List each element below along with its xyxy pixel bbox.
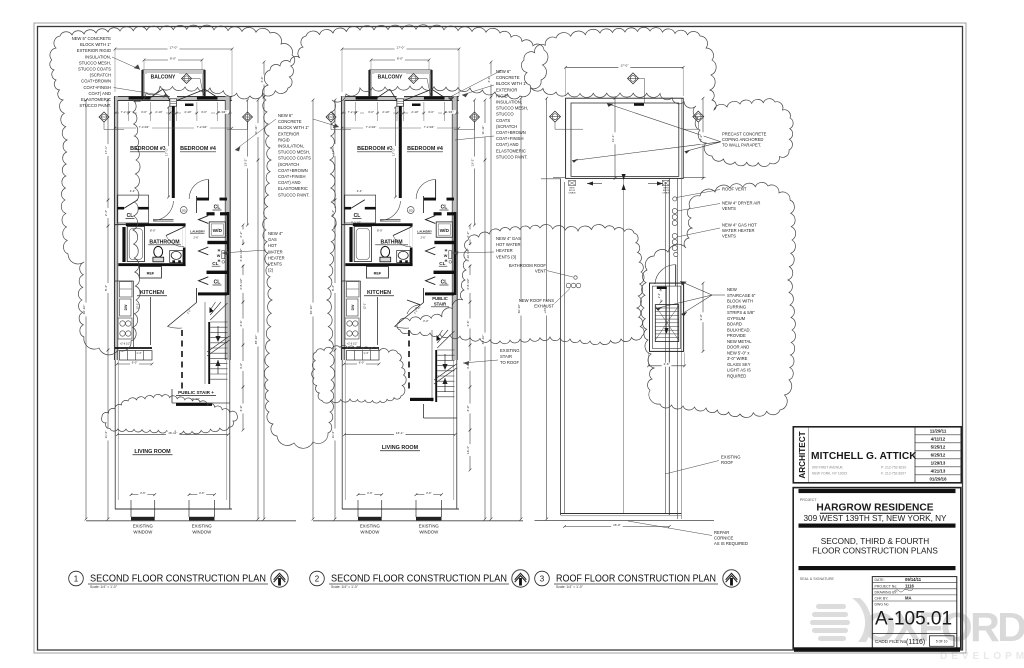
svg-text:2'-10": 2'-10" bbox=[184, 110, 191, 114]
svg-text:4/11/12: 4/11/12 bbox=[931, 437, 946, 442]
svg-text:8'-4": 8'-4" bbox=[331, 285, 335, 291]
closet right wall poche bbox=[454, 212, 457, 295]
svg-text:LAUNDRY: LAUNDRY bbox=[190, 230, 205, 234]
svg-text:11'-11": 11'-11" bbox=[481, 125, 485, 134]
svg-text:STUCCO MESH,: STUCCO MESH, bbox=[496, 106, 528, 111]
svg-text:BALCONY: BALCONY bbox=[151, 74, 176, 80]
stair direction arrows bbox=[217, 326, 219, 338]
svg-text:HOT: HOT bbox=[268, 243, 277, 248]
precast coping leaders bbox=[607, 104, 721, 142]
svg-text:1/29/13: 1/29/13 bbox=[931, 461, 946, 466]
svg-text:11'-2": 11'-2" bbox=[331, 431, 335, 439]
svg-text:W: W bbox=[444, 254, 448, 258]
sink pedestal bbox=[397, 251, 410, 263]
bottom black bar bbox=[794, 647, 960, 652]
svg-text:1'-4": 1'-4" bbox=[136, 351, 141, 355]
svg-text:8'-0": 8'-0" bbox=[377, 228, 383, 232]
svg-text:EXISTING: EXISTING bbox=[192, 524, 213, 529]
bedroom3 interior vdim bbox=[168, 107, 170, 197]
svg-text:KITCHEN: KITCHEN bbox=[140, 290, 164, 296]
svg-text:2'-2": 2'-2" bbox=[415, 306, 421, 310]
svg-text:17'-0": 17'-0" bbox=[170, 45, 178, 49]
svg-text:BATHROOM: BATHROOM bbox=[149, 239, 179, 245]
revision cloud mid-roof bbox=[397, 225, 644, 345]
plan title 2 bbox=[310, 571, 325, 586]
data table bbox=[872, 577, 957, 649]
svg-text:46'-10": 46'-10" bbox=[82, 305, 86, 315]
kitchen counter + DW bbox=[360, 281, 362, 348]
svg-text:CL: CL bbox=[214, 205, 221, 211]
svg-text:STUCCO COATS: STUCCO COATS bbox=[278, 156, 311, 161]
svg-text:5/25/12: 5/25/12 bbox=[931, 445, 946, 450]
svg-text:VENT: VENT bbox=[535, 269, 547, 274]
svg-text:(2): (2) bbox=[268, 268, 274, 273]
svg-text:NEW 4" GAS HOT: NEW 4" GAS HOT bbox=[722, 223, 757, 228]
svg-text:4'-4": 4'-4" bbox=[357, 189, 363, 193]
svg-text:4'-6": 4'-6" bbox=[260, 76, 264, 82]
bedroom3 interior vdim bbox=[395, 107, 397, 197]
svg-text:VENTS: VENTS bbox=[722, 206, 736, 211]
revision dates table bbox=[914, 427, 916, 483]
svg-text:11'-1": 11'-1" bbox=[611, 134, 615, 142]
svg-text:3'-9": 3'-9" bbox=[239, 405, 243, 411]
public stair treads bbox=[208, 322, 210, 384]
stucco leader to door bbox=[114, 88, 170, 97]
roof left vdim 46-10 bbox=[520, 98, 522, 519]
right vertical dims bbox=[247, 100, 249, 225]
svg-text:DRAIN: DRAIN bbox=[569, 191, 576, 194]
svg-text:KITCHEN: KITCHEN bbox=[367, 290, 391, 296]
svg-text:ELASTOMERIC: ELASTOMERIC bbox=[278, 186, 308, 191]
svg-text:VENTS: VENTS bbox=[722, 234, 736, 239]
revision cloud roof top bbox=[521, 27, 793, 166]
french doors bbox=[170, 96, 177, 101]
staircase note leaders bbox=[680, 281, 712, 295]
svg-text:DW: DW bbox=[124, 304, 128, 310]
door frame block bbox=[170, 99, 177, 106]
roof dim 16-0 bbox=[565, 526, 670, 528]
balcony label bbox=[147, 73, 179, 80]
bottom wall bbox=[342, 508, 459, 510]
hall dashed wall bbox=[408, 330, 410, 390]
svg-text:1116: 1116 bbox=[905, 583, 915, 588]
svg-text:7'-2 3/4": 7'-2 3/4" bbox=[424, 125, 435, 129]
bulkhead interior dims bbox=[660, 289, 662, 302]
svg-text:3'-0": 3'-0" bbox=[141, 110, 147, 114]
svg-text:TO WALL PARAPET.: TO WALL PARAPET. bbox=[722, 143, 761, 148]
svg-text:WATER: WATER bbox=[268, 249, 283, 254]
svg-text:EXHAUST: EXHAUST bbox=[534, 304, 554, 309]
svg-text:RIGID: RIGID bbox=[278, 137, 290, 142]
svg-text:16'-11": 16'-11" bbox=[168, 431, 177, 435]
public stair treads bbox=[435, 350, 437, 402]
stair bulkhead bbox=[650, 283, 684, 351]
svg-text:ROOF FLOOR CONSTRUCTION PLAN: ROOF FLOOR CONSTRUCTION PLAN bbox=[556, 574, 716, 585]
svg-text:COAT+BROWN: COAT+BROWN bbox=[278, 168, 308, 173]
interior revision cloud bbox=[101, 394, 237, 434]
french doors bbox=[397, 96, 404, 101]
svg-text:SECOND FLOOR CONSTRUCTION PLAN: SECOND FLOOR CONSTRUCTION PLAN bbox=[331, 574, 507, 585]
svg-text:BEDROOM #4: BEDROOM #4 bbox=[180, 146, 216, 152]
svg-text:COAT+FINISH: COAT+FINISH bbox=[84, 85, 112, 90]
closet right wall poche bbox=[227, 212, 230, 295]
svg-text:PRECAST CONCRETE: PRECAST CONCRETE bbox=[722, 132, 767, 137]
svg-text:BLOCK WITH 1": BLOCK WITH 1" bbox=[496, 81, 528, 86]
svg-text:1'-4": 1'-4" bbox=[363, 351, 368, 355]
svg-text:INSULATION,: INSULATION, bbox=[496, 100, 522, 105]
SECOND FLOOR PLAN 2 bbox=[309, 45, 523, 534]
svg-text:NEW 4" GAS: NEW 4" GAS bbox=[496, 236, 521, 241]
ground line bbox=[313, 520, 523, 522]
svg-text:+2'-6 1/2": +2'-6 1/2" bbox=[120, 343, 131, 346]
svg-text:6'-0": 6'-0" bbox=[132, 360, 138, 364]
svg-text:CHK BY:: CHK BY: bbox=[875, 597, 889, 601]
svg-text:REF: REF bbox=[147, 272, 155, 276]
balcony diamond tag bbox=[182, 74, 192, 84]
gas vent circles bbox=[672, 233, 677, 238]
svg-text:CL: CL bbox=[214, 280, 221, 286]
svg-text:11/29/11: 11/29/11 bbox=[930, 429, 947, 434]
svg-text:3'-6": 3'-6" bbox=[199, 491, 205, 495]
svg-text:CONCRETE: CONCRETE bbox=[278, 119, 302, 124]
svg-text:SEAL & SIGNATURE: SEAL & SIGNATURE bbox=[800, 577, 835, 581]
svg-text:BLOCK WITH 1": BLOCK WITH 1" bbox=[278, 125, 310, 130]
svg-text:EXTERIOR RIGID: EXTERIOR RIGID bbox=[77, 48, 111, 53]
svg-text:HEATER: HEATER bbox=[268, 255, 285, 260]
svg-text:H: H bbox=[218, 249, 221, 253]
svg-text:SECOND, THIRD & FOURTH: SECOND, THIRD & FOURTH bbox=[821, 537, 930, 546]
parapet bottom edge stubs bbox=[553, 176, 566, 178]
svg-text:WINDOW: WINDOW bbox=[419, 530, 439, 535]
balcony walls bbox=[370, 70, 432, 98]
svg-text:EXISTING: EXISTING bbox=[133, 524, 154, 529]
bathroom door leaf bbox=[410, 227, 412, 248]
roof centerline bbox=[623, 178, 625, 514]
black bar 1 bbox=[799, 489, 956, 493]
svg-text:W/D: W/D bbox=[213, 228, 223, 234]
dim 16-11 bbox=[345, 434, 456, 436]
hot water heater HWH bbox=[199, 247, 209, 255]
compass 1 bbox=[271, 570, 288, 587]
dim 8-0 balcony bbox=[144, 59, 202, 61]
right vertical dims bbox=[474, 100, 476, 225]
svg-text:COAT) AND: COAT) AND bbox=[496, 142, 519, 147]
svg-text:09/14/11: 09/14/11 bbox=[905, 577, 922, 582]
bathroom door leaf bbox=[183, 227, 185, 248]
svg-text:LAUNDRY: LAUNDRY bbox=[417, 230, 432, 234]
svg-text:RQUIRED: RQUIRED bbox=[727, 373, 746, 378]
svg-text:17'-1": 17'-1" bbox=[104, 146, 108, 154]
svg-text:7'-3 3/4": 7'-3 3/4" bbox=[139, 125, 150, 129]
svg-text:NEW: NEW bbox=[727, 287, 737, 292]
bathtub bbox=[354, 227, 371, 262]
svg-text:PUBLIC: PUBLIC bbox=[432, 296, 448, 301]
svg-text:CL: CL bbox=[439, 261, 445, 266]
svg-text:7'-3 3/4": 7'-3 3/4" bbox=[366, 125, 377, 129]
right exterior wall bbox=[452, 96, 457, 360]
svg-text:+2'-6 1/2": +2'-6 1/2" bbox=[347, 343, 358, 346]
svg-text:REPAIR: REPAIR bbox=[714, 530, 729, 535]
svg-text:Scale: 1/4" = 1'-0": Scale: 1/4" = 1'-0" bbox=[331, 585, 359, 589]
dishwasher bbox=[347, 299, 359, 316]
svg-text:LIVING ROOM: LIVING ROOM bbox=[382, 445, 419, 451]
svg-text:EXISTING: EXISTING bbox=[721, 455, 741, 460]
project title block frame bbox=[793, 488, 961, 649]
svg-text:3'-0": 3'-0" bbox=[368, 110, 374, 114]
svg-text:48'-10": 48'-10" bbox=[481, 335, 485, 345]
dishwasher bbox=[120, 299, 132, 316]
existing window bbox=[130, 500, 132, 517]
svg-text:ROOF VENT: ROOF VENT bbox=[722, 187, 747, 192]
svg-text:BALCONY: BALCONY bbox=[378, 74, 403, 80]
svg-text:(SCRATCH: (SCRATCH bbox=[278, 162, 299, 167]
hall corridor walls bbox=[150, 297, 152, 345]
svg-text:6/25/12: 6/25/12 bbox=[931, 453, 946, 458]
svg-text:COAT+BROWN: COAT+BROWN bbox=[81, 79, 111, 84]
front wall with windows bbox=[341, 96, 459, 101]
svg-text:PROVIDE: PROVIDE bbox=[727, 333, 746, 338]
closet top wall bars bbox=[197, 198, 209, 201]
stair direction arrows bbox=[444, 354, 446, 366]
svg-text:BOARD: BOARD bbox=[727, 322, 742, 327]
smoke detector bbox=[180, 207, 187, 214]
svg-text:NEW 5'-0" x: NEW 5'-0" x bbox=[727, 350, 750, 355]
architect title block frame bbox=[793, 427, 961, 483]
closet bifold door bbox=[199, 216, 209, 224]
revision cloud plan1 bbox=[50, 25, 295, 355]
svg-text:EXISTING: EXISTING bbox=[500, 348, 520, 353]
left exterior wall bbox=[341, 96, 345, 360]
svg-text:DWG No: DWG No bbox=[875, 603, 889, 607]
svg-text:ELASTOMERIC: ELASTOMERIC bbox=[81, 97, 111, 102]
roof top diamond tag bbox=[628, 73, 639, 84]
stair break line bbox=[207, 340, 230, 356]
existing window bbox=[415, 500, 417, 517]
svg-text:GLASS SKY: GLASS SKY bbox=[727, 362, 751, 367]
dim 17-0 overall width bbox=[115, 48, 232, 50]
svg-text:Scale: 1/4" = 1'-0": Scale: 1/4" = 1'-0" bbox=[556, 585, 584, 589]
bulkhead dim 9-9 bbox=[702, 283, 704, 351]
svg-text:COAT+FINISH: COAT+FINISH bbox=[278, 174, 306, 179]
svg-text:(SCRATCH: (SCRATCH bbox=[496, 124, 517, 129]
stair hall door arc bbox=[407, 305, 420, 314]
svg-text:2'-10 1/2": 2'-10 1/2" bbox=[239, 248, 243, 261]
svg-text:DW: DW bbox=[351, 304, 355, 310]
svg-text:STUCCO: STUCCO bbox=[496, 112, 514, 117]
svg-text:STUCCO PAINT.: STUCCO PAINT. bbox=[278, 192, 310, 197]
stair winders bbox=[210, 303, 227, 320]
svg-text:VENTS: VENTS bbox=[268, 262, 282, 267]
svg-text:WINDOW: WINDOW bbox=[192, 530, 212, 535]
svg-text:EXISTING: EXISTING bbox=[419, 524, 440, 529]
roof ground line bbox=[535, 520, 715, 522]
svg-text:11 3/4": 11 3/4" bbox=[445, 110, 454, 114]
stove burners bbox=[118, 318, 132, 339]
svg-text:16'-4": 16'-4" bbox=[466, 446, 470, 454]
svg-text:2'-6": 2'-6" bbox=[421, 236, 426, 240]
svg-text:W: W bbox=[217, 254, 221, 258]
bedroom partition wall bbox=[172, 106, 175, 198]
refrigerator bbox=[139, 267, 161, 279]
svg-text:3'-9": 3'-9" bbox=[466, 405, 470, 411]
ground line bbox=[86, 520, 296, 522]
svg-text:MITCHELL G. ATTICK: MITCHELL G. ATTICK bbox=[811, 451, 917, 462]
svg-text:NEW YORK, NY 10022: NEW YORK, NY 10022 bbox=[812, 472, 847, 476]
svg-text:CL: CL bbox=[441, 280, 448, 286]
dim 17-0 overall width bbox=[342, 48, 459, 50]
svg-text:6'-0": 6'-0" bbox=[359, 360, 365, 364]
upper cabinet bbox=[120, 282, 133, 298]
svg-text:CL: CL bbox=[354, 213, 361, 219]
svg-text:2'-8 1/2": 2'-8 1/2" bbox=[466, 278, 470, 289]
svg-text:ROOF: ROOF bbox=[721, 460, 734, 465]
svg-text:STAIR: STAIR bbox=[500, 354, 512, 359]
svg-text:MA: MA bbox=[905, 596, 912, 601]
svg-text:INSULATION,: INSULATION, bbox=[85, 54, 111, 59]
svg-text:STUCCO MESH,: STUCCO MESH, bbox=[79, 60, 111, 65]
small interior steps bbox=[342, 347, 379, 349]
svg-text:(SCRATCH: (SCRATCH bbox=[90, 73, 111, 78]
bedroom partition wall bbox=[399, 106, 402, 198]
roof drain right bbox=[662, 181, 669, 186]
cadd file row bbox=[872, 633, 957, 635]
bathroom walls bbox=[115, 224, 126, 226]
svg-text:2'-10": 2'-10" bbox=[411, 110, 418, 114]
svg-text:HOT WATER: HOT WATER bbox=[496, 242, 521, 247]
svg-text:HEATER: HEATER bbox=[496, 248, 513, 253]
black bar 2 bbox=[799, 524, 956, 528]
kitchen counter + DW bbox=[133, 281, 135, 348]
left exterior wall bbox=[114, 96, 118, 360]
svg-text:WINDOW: WINDOW bbox=[360, 530, 380, 535]
mid closet right bbox=[207, 271, 228, 274]
svg-text:BEDROOM #4: BEDROOM #4 bbox=[407, 146, 443, 152]
svg-text:NEW METAL: NEW METAL bbox=[727, 339, 752, 344]
svg-text:11'-2": 11'-2" bbox=[104, 431, 108, 439]
roof body walls bbox=[560, 178, 562, 515]
svg-text:TO ROOF: TO ROOF bbox=[500, 360, 519, 365]
svg-text:DOOR AND: DOOR AND bbox=[727, 345, 749, 350]
svg-text:PROJECT No:: PROJECT No: bbox=[875, 584, 898, 588]
left parapet diamond bbox=[550, 111, 561, 122]
svg-text:BLOCK WITH 1": BLOCK WITH 1" bbox=[80, 42, 112, 47]
dim row lower bbox=[342, 127, 459, 129]
svg-text:17'-0": 17'-0" bbox=[397, 45, 405, 49]
svg-text:4'-4": 4'-4" bbox=[130, 189, 136, 193]
balcony diamond tag bbox=[409, 74, 419, 84]
svg-text:COAT) AND: COAT) AND bbox=[278, 180, 301, 185]
svg-text:3'-6": 3'-6" bbox=[140, 491, 146, 495]
svg-text:17'-0": 17'-0" bbox=[620, 64, 628, 68]
svg-text:CADD FILE No:: CADD FILE No: bbox=[875, 639, 907, 644]
window tag diamond right bbox=[243, 112, 253, 122]
svg-text:LIGHT AS IS: LIGHT AS IS bbox=[727, 368, 751, 373]
svg-text:DATE:: DATE: bbox=[875, 578, 885, 582]
drawing-by signature squiggle bbox=[894, 589, 913, 592]
bathroom roof vent circles bbox=[574, 276, 577, 279]
window tag diamond right bbox=[470, 112, 480, 122]
laundry W/D bbox=[209, 222, 225, 237]
bathroom walls bbox=[342, 224, 353, 226]
svg-text:9'-9": 9'-9" bbox=[699, 314, 703, 320]
svg-text:8'-0": 8'-0" bbox=[397, 56, 403, 60]
door header dash bbox=[412, 104, 421, 107]
svg-text:PROJECT: PROJECT bbox=[800, 498, 818, 502]
door swing leaves bbox=[151, 89, 163, 97]
svg-text:13'-2": 13'-2" bbox=[244, 159, 248, 167]
bulkhead stair treads bbox=[655, 307, 678, 309]
svg-text:NEW 6" CONCRETE: NEW 6" CONCRETE bbox=[72, 36, 112, 41]
svg-text:2'-4": 2'-4" bbox=[657, 293, 661, 298]
existing window bbox=[188, 500, 190, 517]
svg-text:3'-0": 3'-0" bbox=[201, 110, 207, 114]
mid closet right bbox=[434, 271, 455, 274]
left vertical dims bbox=[85, 100, 87, 519]
black bar 3 bbox=[799, 566, 956, 570]
dim row upper bbox=[342, 112, 459, 114]
balcony walls bbox=[143, 70, 205, 98]
stair winders bbox=[437, 331, 454, 348]
sink pedestal bbox=[170, 251, 183, 263]
parapet center dim 11-1 bbox=[614, 98, 616, 178]
ARCHITECT vertical label bbox=[798, 431, 807, 478]
svg-text:NEW 4" DRYER AIR: NEW 4" DRYER AIR bbox=[722, 201, 760, 206]
door header dash bbox=[185, 104, 194, 107]
left vertical dims bbox=[312, 100, 314, 519]
svg-text:12'-2": 12'-2" bbox=[363, 303, 367, 310]
svg-text:REF: REF bbox=[374, 272, 382, 276]
drain slope arrows bbox=[587, 183, 602, 185]
svg-text:999 FIRST AVENUE: 999 FIRST AVENUE bbox=[812, 466, 844, 470]
svg-text:F: 212-752-8207: F: 212-752-8207 bbox=[881, 472, 906, 476]
toilet bbox=[154, 246, 163, 257]
interior revision cloud bbox=[312, 345, 406, 403]
svg-text:BEDROOM #3: BEDROOM #3 bbox=[130, 146, 166, 152]
plan title 1 bbox=[69, 571, 84, 586]
roof left vdim 23-8 bbox=[546, 98, 548, 519]
svg-text:NEW 6": NEW 6" bbox=[496, 69, 511, 74]
svg-text:48'-10": 48'-10" bbox=[254, 335, 258, 345]
svg-text:CORNICE: CORNICE bbox=[714, 536, 734, 541]
right parapet diamond bbox=[693, 111, 704, 122]
stair break line bbox=[434, 368, 457, 384]
svg-text:3'-0" WIRE: 3'-0" WIRE bbox=[727, 356, 748, 361]
roof hatch mark bbox=[634, 103, 644, 106]
svg-text:COPING ANCHORED: COPING ANCHORED bbox=[722, 137, 763, 142]
bulkhead dim 4-6 bbox=[649, 365, 685, 367]
svg-text:H: H bbox=[445, 249, 448, 253]
hall door bedroom3 bbox=[153, 219, 174, 221]
refrigerator bbox=[366, 267, 388, 279]
svg-text:COAT) AND: COAT) AND bbox=[89, 91, 112, 96]
balcony label bbox=[374, 73, 406, 80]
svg-text:VENTS (3): VENTS (3) bbox=[496, 254, 517, 259]
dim 8-0 balcony bbox=[371, 59, 429, 61]
stove burners bbox=[345, 318, 359, 339]
kitchen door leaf bbox=[395, 303, 424, 327]
dim 16-11 bbox=[118, 434, 229, 436]
svg-text:P: 212-752-8210: P: 212-752-8210 bbox=[881, 466, 906, 470]
svg-text:17'-1": 17'-1" bbox=[165, 148, 169, 156]
svg-text:SECOND FLOOR CONSTRUCTION PLAN: SECOND FLOOR CONSTRUCTION PLAN bbox=[90, 574, 266, 585]
svg-text:4'-6": 4'-6" bbox=[466, 320, 470, 326]
svg-text:STRIPS & 5/8": STRIPS & 5/8" bbox=[727, 310, 755, 315]
svg-text:EXTERIOR: EXTERIOR bbox=[278, 131, 299, 136]
svg-text:46'-10": 46'-10" bbox=[517, 304, 521, 314]
front wall with windows bbox=[114, 96, 232, 101]
bottom wall bbox=[115, 508, 232, 510]
svg-text:8'-0": 8'-0" bbox=[150, 228, 156, 232]
